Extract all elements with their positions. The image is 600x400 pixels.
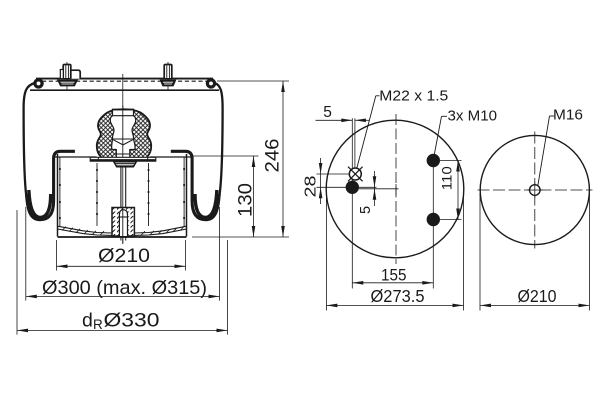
- extension/centre line through M10 left bolt (vertical): [351, 118, 353, 288]
- extension line through M22 (vertical): [354, 118, 356, 168]
- piston outer wall right: [183, 154, 186, 237]
- top plate: [30, 79, 219, 91]
- svg-text:Ø300 (max. Ø315): Ø300 (max. Ø315): [42, 277, 207, 299]
- bellows outer wall left with rolling lobe: [24, 83, 75, 220]
- dim diam 300 (max 315): [26, 207, 220, 301]
- piston inner rib left (ticked line): [96, 163, 98, 226]
- top plate bead left: [35, 80, 42, 87]
- centre cross horizontal dash: [395, 184, 397, 195]
- bumper base plate: [90, 157, 156, 161]
- svg-text:3x M10: 3x M10: [448, 109, 498, 125]
- svg-text:M16: M16: [553, 108, 583, 124]
- dim 155: [352, 265, 433, 284]
- dim 5 (below M10, vertical): [358, 171, 376, 214]
- dim diam 210 right: [480, 193, 590, 311]
- label 3x M10 with leader: [434, 109, 497, 155]
- centre stud nut below bumper: [114, 162, 137, 167]
- dim 246: [192, 81, 289, 237]
- M10 bolt upper right (filled): [427, 154, 440, 167]
- svg-text:R: R: [93, 317, 103, 332]
- dim 130: [191, 156, 259, 237]
- horizontal line through M10 centre: [317, 186, 377, 188]
- top plate bead right: [207, 80, 214, 87]
- stud 2 (right): [161, 62, 175, 90]
- stud 1 (left, with fitting block): [58, 62, 80, 90]
- piston rim surface: [55, 156, 192, 158]
- dim diam 273.5: [326, 195, 463, 311]
- svg-text:110: 110: [439, 166, 455, 190]
- svg-text:130: 130: [234, 183, 256, 217]
- piston inner rib right (ticked line): [148, 163, 150, 226]
- M22 x 1.5 threaded hole (crossed circle): [348, 167, 363, 182]
- piston outer wall left: [58, 154, 61, 237]
- horizontal centreline stub at 5 dim: [359, 188, 399, 190]
- svg-text:5: 5: [323, 104, 332, 121]
- vertical centreline dashed: [395, 114, 397, 264]
- dim dR diam 330: [17, 210, 228, 335]
- piston circle: [480, 135, 589, 244]
- centre rod: [121, 167, 126, 208]
- M10 bolt left (filled): [346, 181, 359, 194]
- label M22 x 1.5 with leader: [357, 89, 449, 169]
- M16 hole: [527, 182, 543, 198]
- dim 28 (left, vertical): [302, 158, 322, 204]
- bottom centre boss (hatched): [112, 208, 134, 245]
- svg-text:246: 246: [262, 139, 284, 173]
- svg-text:d: d: [82, 310, 93, 332]
- horizontal line through M22 centre: [317, 173, 352, 175]
- centre axis of side view: [122, 74, 124, 243]
- svg-text:155: 155: [381, 265, 407, 284]
- label M16 with leader: [538, 108, 583, 186]
- dim diam 210 left: [57, 240, 186, 271]
- horizontal centreline dashed: [478, 189, 593, 191]
- svg-text:28: 28: [302, 176, 319, 198]
- M10 bolt lower right (filled): [427, 213, 440, 226]
- svg-text:Ø330: Ø330: [104, 310, 160, 332]
- piston floor (sectioned sheet): [58, 226, 187, 237]
- vertical centreline dashed: [534, 132, 536, 249]
- svg-text:M22 x 1.5: M22 x 1.5: [379, 89, 448, 105]
- dim 110 (right, vertical): [439, 161, 462, 220]
- svg-text:Ø210: Ø210: [98, 245, 150, 267]
- rubber bumper (buffer) cross-hatched: [97, 106, 151, 162]
- svg-text:Ø273.5: Ø273.5: [371, 286, 425, 306]
- plate circle: [326, 120, 464, 258]
- svg-text:5: 5: [358, 206, 374, 214]
- svg-text:Ø210: Ø210: [518, 286, 557, 306]
- bellows outer wall right with rolling lobe: [171, 83, 223, 220]
- extension line through right bolts (vertical): [432, 167, 434, 289]
- dim 5 (top, horizontal): [316, 104, 370, 122]
